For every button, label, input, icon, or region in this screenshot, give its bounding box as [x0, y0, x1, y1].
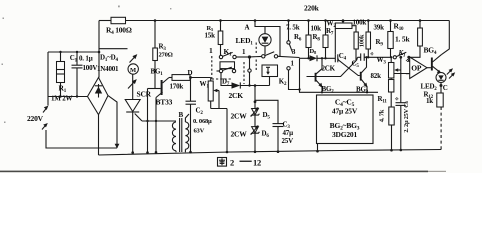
wire — [146, 89, 149, 154]
cross coupling wires — [307, 57, 360, 76]
svg-text:7. 5k: 7. 5k — [286, 24, 300, 32]
resistor 170k — [169, 75, 190, 91]
wire MV emitter rail — [298, 58, 378, 92]
bridge rectifier D1~D4 — [88, 54, 120, 115]
wire — [249, 55, 262, 58]
resistor R4 — [106, 17, 132, 36]
bottom rail — [99, 150, 442, 156]
caption fig 2-12 — [218, 158, 262, 168]
svg-text:220k: 220k — [304, 4, 320, 13]
node D — [188, 69, 193, 79]
svg-text:3DG201: 3DG201 — [332, 130, 358, 139]
wire — [191, 77, 211, 79]
220V source terminal arrows — [27, 106, 117, 148]
svg-text:170k: 170k — [170, 83, 184, 91]
svg-text:3: 3 — [292, 47, 296, 56]
resistor R10 1.5k — [394, 19, 423, 57]
relay contact K1 lower — [217, 67, 236, 73]
zener D6 2CW — [231, 115, 270, 153]
resistor R5 — [205, 19, 223, 55]
relay contact K2-IIA — [287, 19, 300, 89]
wire — [48, 51, 99, 53]
zener D5 2CW — [231, 84, 271, 120]
resistor R11 4.7k — [378, 95, 395, 152]
wire — [98, 115, 100, 155]
relay coil K2 — [262, 65, 287, 87]
svg-text:63V: 63V — [194, 128, 205, 135]
svg-text:15k: 15k — [205, 32, 216, 40]
svg-text:100k: 100k — [353, 18, 367, 26]
svg-text:BT33: BT33 — [156, 98, 173, 107]
wire — [98, 21, 101, 78]
svg-text:12: 12 — [253, 158, 261, 168]
LED2 — [421, 68, 456, 93]
resistor 100k second — [353, 18, 374, 58]
svg-text:100k: 100k — [359, 34, 366, 47]
wire — [47, 52, 49, 106]
info box — [316, 95, 373, 153]
capacitor C6 — [395, 56, 410, 151]
pot W3 — [377, 56, 401, 78]
scan specks — [2, 6, 172, 124]
relay contact K1 — [219, 47, 248, 59]
diode D7 2CK — [221, 73, 270, 100]
node C — [440, 84, 448, 92]
svg-text:100V: 100V — [83, 64, 98, 72]
svg-text:47μ 25V: 47μ 25V — [332, 107, 358, 116]
svg-text:2. 2μ 25V C6: 2. 2μ 25V C6 — [403, 100, 410, 132]
svg-text:4. 7k: 4. 7k — [379, 109, 386, 122]
capacitor C2 — [186, 78, 213, 154]
transistor BG3 — [356, 56, 369, 95]
svg-text:25V: 25V — [282, 137, 294, 145]
resistor 100k rotated — [354, 32, 366, 60]
capacitor C1 — [70, 52, 98, 97]
node B — [242, 48, 251, 59]
svg-text:2CK: 2CK — [229, 91, 244, 100]
capacitor C5 — [352, 53, 391, 69]
svg-text:1k: 1k — [426, 97, 433, 105]
motor M load branch — [99, 49, 139, 100]
scan edge bottom — [0, 171, 446, 173]
svg-text:D: D — [188, 69, 193, 77]
svg-text:0. 068μ: 0. 068μ — [193, 118, 212, 125]
dashed link — [244, 43, 256, 85]
svg-text:B: B — [179, 111, 184, 119]
svg-text:220V: 220V — [27, 114, 44, 123]
svg-text:2CK: 2CK — [322, 65, 336, 73]
transistor BG1 BT33 — [148, 68, 173, 154]
svg-text:10k: 10k — [311, 25, 322, 33]
svg-text:SCR: SCR — [137, 90, 152, 99]
svg-text:1M 2W: 1M 2W — [51, 94, 73, 102]
transformer B — [172, 111, 189, 152]
potentiometer W1 — [200, 78, 229, 154]
op-amp OP — [406, 57, 427, 79]
svg-text:A: A — [245, 24, 250, 32]
svg-text:270Ω: 270Ω — [159, 52, 173, 59]
svg-text:C: C — [443, 84, 448, 92]
terminal and wire — [248, 57, 251, 87]
transistor BG2 — [315, 57, 335, 94]
wire gate — [142, 120, 173, 122]
svg-text:1N4001: 1N4001 — [97, 65, 119, 73]
resistor 82k — [371, 72, 410, 107]
svg-text:1. 5k: 1. 5k — [395, 35, 410, 44]
wire — [48, 95, 88, 97]
dashed link K1 — [212, 56, 231, 79]
svg-text:M: M — [130, 67, 136, 74]
SCR — [125, 90, 151, 154]
svg-text:0. 1μ: 0. 1μ — [79, 55, 93, 63]
svg-text:R4 100Ω: R4 100Ω — [106, 26, 132, 37]
svg-text:47μ: 47μ — [283, 129, 294, 137]
svg-text:2CW: 2CW — [231, 112, 248, 121]
resistor R9 39k — [374, 19, 394, 57]
top rail — [99, 20, 449, 22]
capacitor C4 — [335, 52, 346, 62]
svg-text:OP: OP — [411, 64, 422, 73]
svg-text:1: 1 — [209, 46, 213, 55]
svg-text:2CW: 2CW — [231, 130, 248, 139]
relay coil K1 — [220, 62, 235, 70]
resistor R3 — [153, 19, 173, 88]
LED1 — [236, 19, 281, 56]
wire — [108, 96, 119, 149]
relay contact K1b — [393, 49, 410, 59]
resistor R12 1k — [424, 91, 444, 150]
transistor BG4 — [424, 21, 450, 75]
svg-text:82k: 82k — [371, 72, 382, 80]
relay contact K2 upper — [262, 52, 300, 58]
resistor R1 — [51, 52, 73, 102]
svg-text:39k: 39k — [374, 24, 385, 32]
capacitor C3 — [254, 100, 294, 153]
pot W2 R7 220k — [304, 4, 356, 55]
diode D8 2CK — [300, 48, 336, 73]
resistor R6 — [286, 19, 311, 59]
resistor R8 — [311, 19, 329, 59]
svg-text:2: 2 — [230, 158, 234, 168]
